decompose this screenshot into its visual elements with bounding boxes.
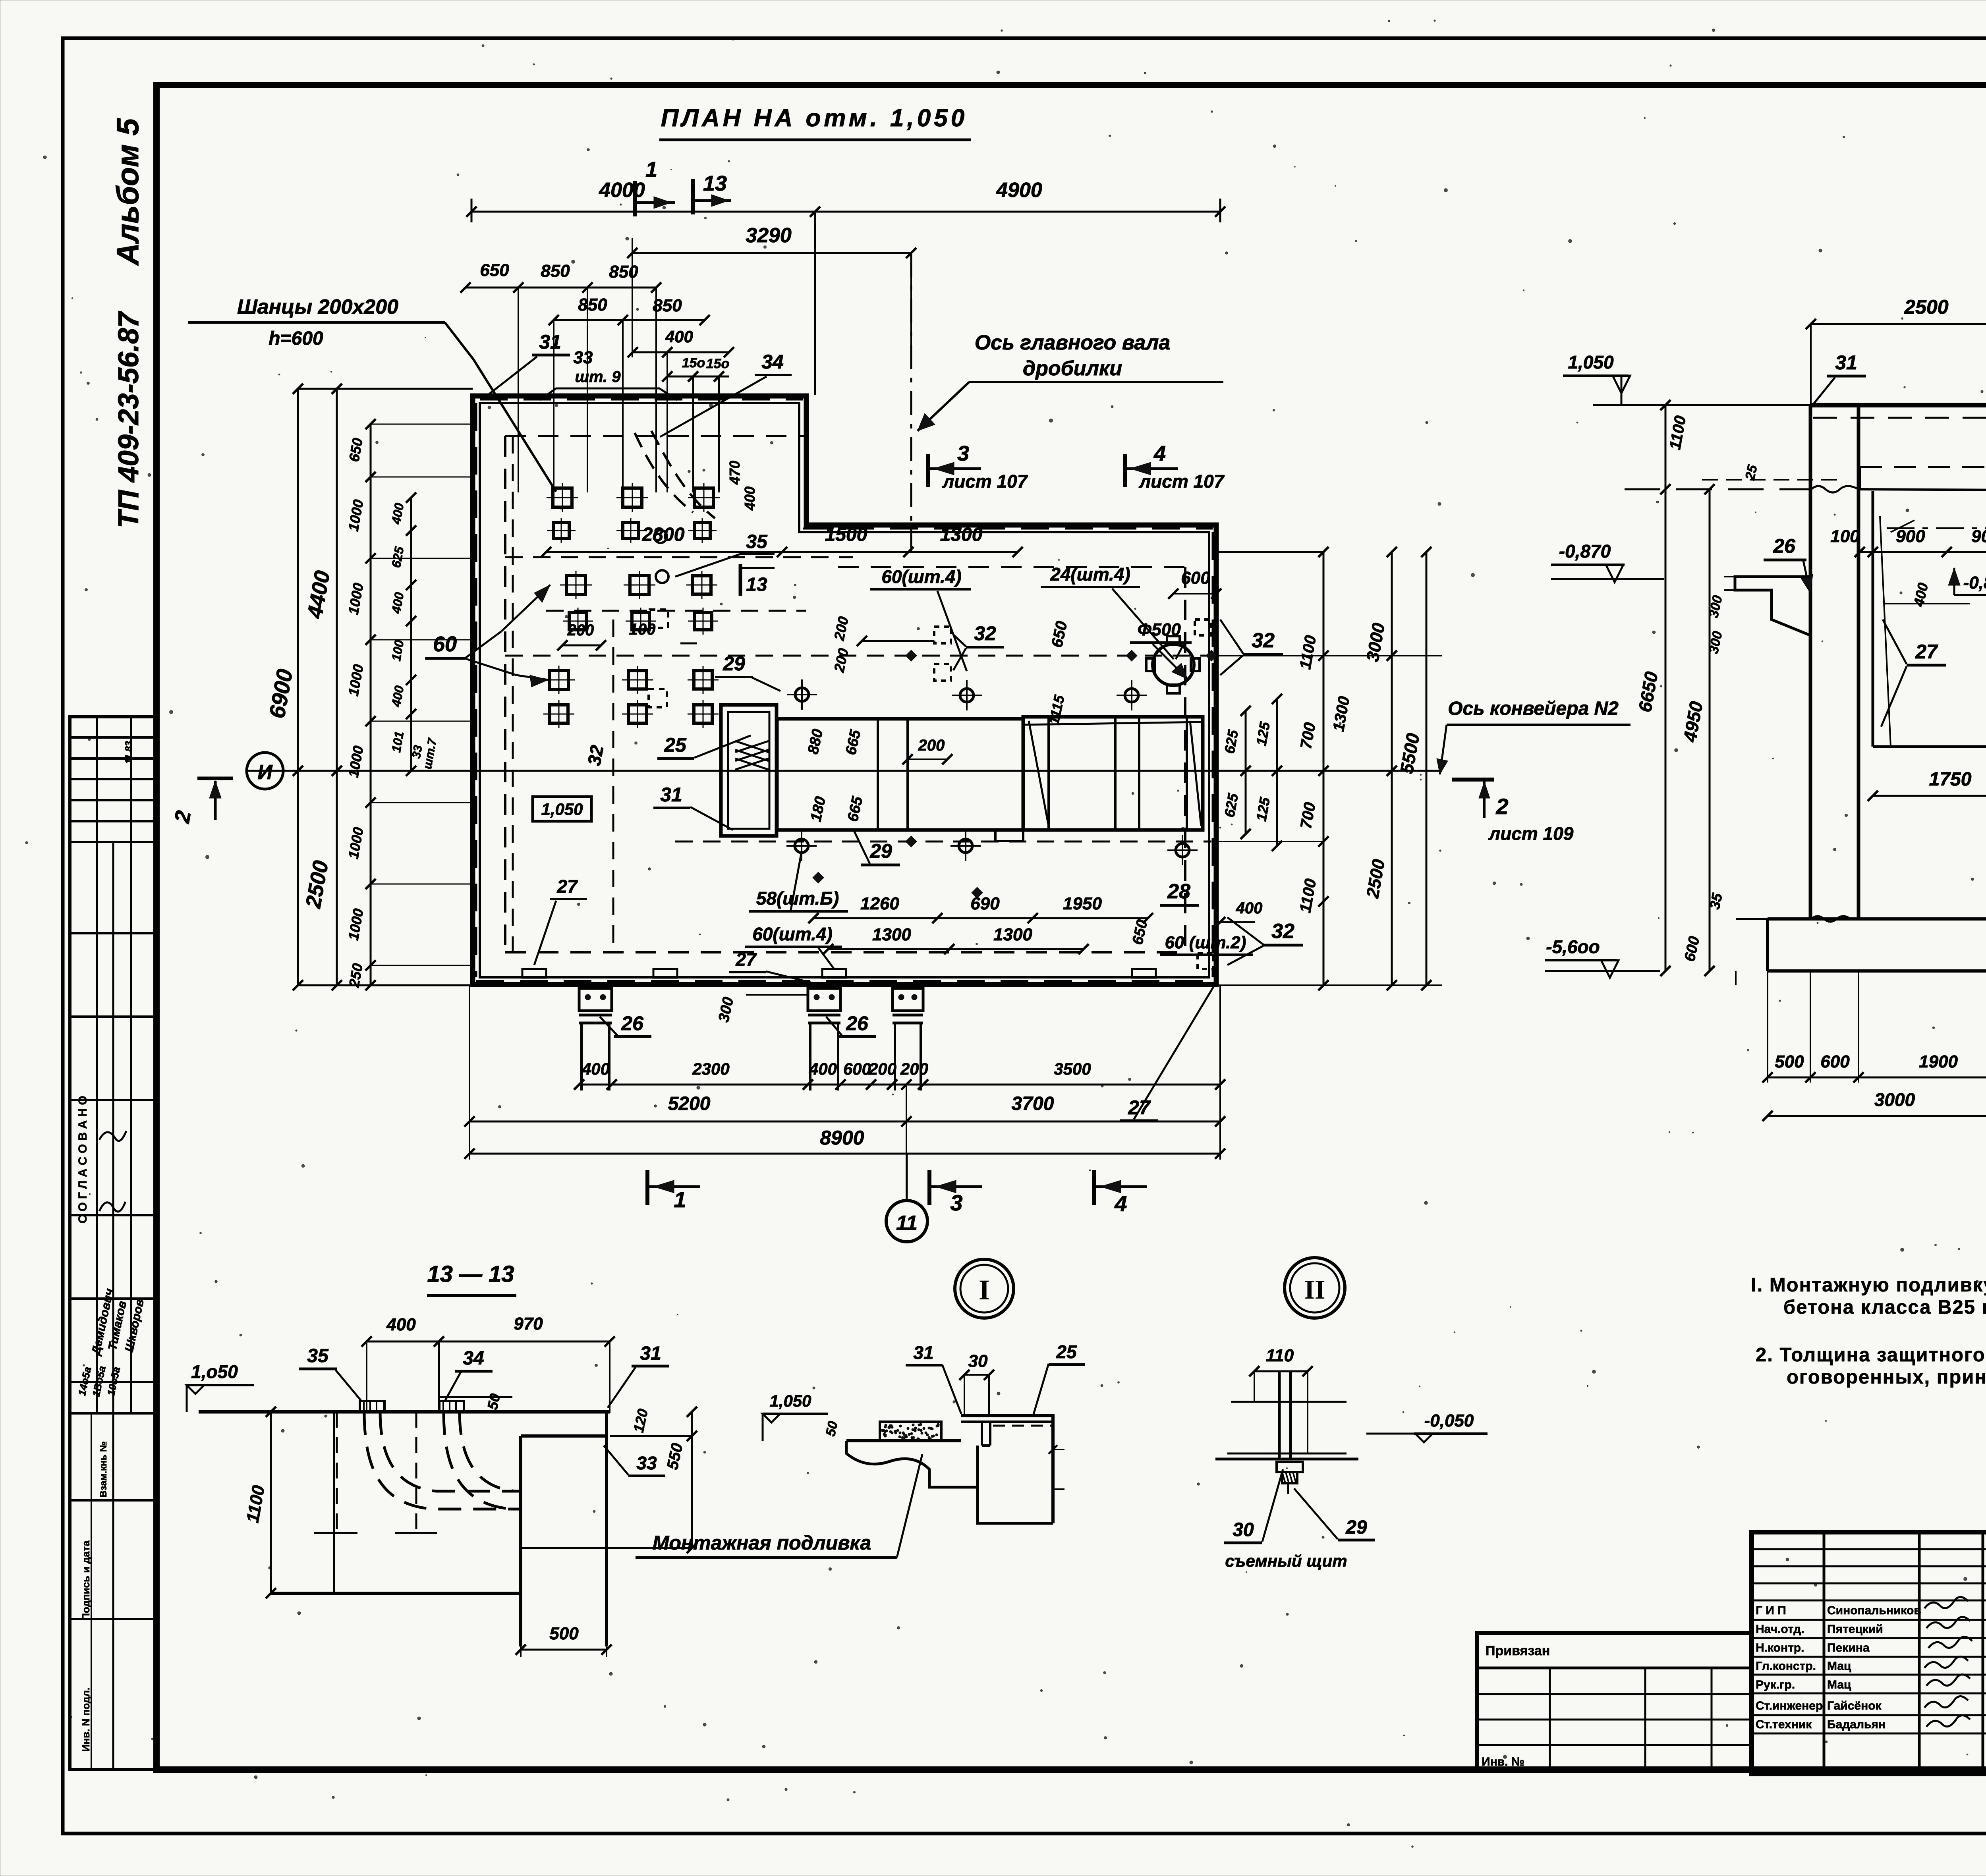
extension verticals top dims [518,288,519,492]
svg-text:-0,800: -0,800 [1963,573,1986,593]
dim 2800/1500/1300 [546,551,1018,553]
svg-text:200: 200 [868,1060,896,1078]
svg-text:оговоренных, принята 35 мм.: оговоренных, принята 35 мм. [1787,1366,1986,1388]
footing [1768,917,1986,921]
svg-text:1300: 1300 [993,925,1032,944]
svg-text:Монтажная подливка: Монтажная подливка [653,1532,871,1554]
svg-text:ТП 409-23-56.87: ТП 409-23-56.87 [113,311,145,528]
svg-text:200: 200 [900,1060,928,1078]
svg-text:съемный щит: съемный щит [1225,1552,1347,1570]
anchor squares grid [553,488,572,507]
svg-text:Пекина: Пекина [1827,1641,1870,1654]
bottom flags 1 3 4 [645,1170,649,1205]
pit inner walls [1872,491,1874,747]
svg-text:500: 500 [549,1624,579,1643]
svg-text:2800: 2800 [642,524,685,545]
svg-text:Пятецкий: Пятецкий [1827,1623,1883,1636]
machine small appendage [995,830,1023,841]
interior dashed horizontals [505,556,853,558]
svg-text:4900: 4900 [996,179,1042,202]
svg-text:1750: 1750 [1929,769,1972,790]
top dim 2500/4400 [1811,323,1986,325]
svg-text:Гайсёнок: Гайсёнок [1827,1699,1882,1712]
svg-text:100: 100 [1830,527,1860,546]
bottom dims 500/600/1900/1900/600/500 [1768,1077,1986,1079]
wall dashes top [480,399,803,401]
svg-text:58(шт.Б): 58(шт.Б) [756,888,839,909]
svg-text:лист 107: лист 107 [1139,471,1225,492]
svg-text:100: 100 [629,621,656,638]
signature table verticals [1823,1532,1826,1774]
svg-text:ПЛАН НА отм. 1,050: ПЛАН НА отм. 1,050 [661,104,968,132]
svg-text:-5,6оо: -5,6оо [1546,936,1600,957]
svg-text:31: 31 [539,331,561,353]
flag 2 list109 right [1452,778,1494,782]
flag 3 list107 [926,454,930,487]
svg-text:33: 33 [636,1453,657,1473]
section flag 13 top [691,179,695,214]
bottom dim row 2 [469,1121,1220,1123]
svg-text:27: 27 [556,876,578,897]
svg-text:35: 35 [746,531,768,552]
svg-text:60 (шт.2): 60 (шт.2) [1165,933,1246,952]
bottom dims 3000/3000 [1768,1115,1986,1117]
svg-text:400: 400 [665,327,693,346]
svg-text:3500: 3500 [1054,1060,1091,1078]
svg-text:50: 50 [823,1420,841,1438]
svg-text:850: 850 [541,261,570,281]
svg-text:1500: 1500 [825,524,867,545]
left dim columns [297,389,299,985]
svg-text:400: 400 [742,486,758,511]
elevation box 1,050 [533,797,591,821]
svg-text:4000: 4000 [599,179,645,202]
title block outer [1752,1532,1986,1774]
dim 850/850 row2 [554,319,705,321]
svg-text:60(шт.4): 60(шт.4) [752,924,832,944]
svg-text:Ось конвейера N2: Ось конвейера N2 [1448,698,1619,719]
dim 650/850/850 [466,287,656,289]
slab under dashed [1813,417,1986,419]
svg-text:1: 1 [645,158,657,181]
svg-text:1,050: 1,050 [1568,352,1614,372]
signature table rows [1752,1548,1986,1550]
svg-text:31: 31 [913,1342,933,1363]
svg-text:1260: 1260 [860,894,899,913]
svg-text:Привязан: Привязан [1486,1643,1550,1658]
detail I drawing [846,1439,961,1442]
svg-text:32: 32 [583,743,607,767]
svg-text:650: 650 [480,261,509,280]
svg-text:II: II [1304,1274,1325,1305]
svg-text:13 — 13: 13 — 13 [427,1261,514,1287]
svg-text:2: 2 [1495,794,1508,819]
plan outline inner [480,403,1209,977]
detail II circle [1285,1258,1345,1318]
section bottom extension lines [1767,971,1768,1083]
svg-text:30: 30 [968,1351,988,1371]
dim 400 row3 [633,351,729,353]
svg-text:50: 50 [484,1392,503,1411]
svg-text:2500: 2500 [1904,296,1948,318]
slab top line [1593,404,1811,406]
svg-text:Инв. №: Инв. № [1482,1755,1524,1768]
detail I base plate [961,1414,1053,1417]
svg-text:4: 4 [1153,442,1166,465]
svg-text:Рук.гр.: Рук.гр. [1756,1678,1795,1691]
svg-text:31: 31 [640,1343,661,1364]
detail I wavy break [846,1441,978,1487]
svg-text:13: 13 [703,172,727,195]
svg-text:1900: 1900 [1919,1052,1958,1071]
svg-text:3290: 3290 [746,224,792,247]
svg-text:400: 400 [1236,899,1263,917]
svg-text:1,050: 1,050 [769,1392,811,1410]
svg-text:Синопальников: Синопальников [1827,1604,1921,1617]
inset dashed rectangle [505,435,806,437]
svg-text:31: 31 [660,784,682,806]
svg-text:34: 34 [463,1348,484,1369]
svg-text:Мац: Мац [1827,1678,1851,1691]
svg-text:850: 850 [578,295,607,315]
svg-text:С О Г Л А С О В А Н О: С О Г Л А С О В А Н О [76,1096,89,1223]
svg-text:3: 3 [957,442,969,465]
svg-text:Мац: Мац [1827,1660,1851,1673]
svg-text:Ст.техник: Ст.техник [1756,1718,1812,1731]
svg-text:1,050: 1,050 [541,800,583,818]
svg-text:200: 200 [918,737,945,754]
svg-text:470: 470 [726,461,743,485]
svg-text:850: 850 [653,296,682,315]
bolt circles [795,688,809,701]
svg-text:Ст.инженер: Ст.инженер [1756,1699,1823,1712]
flag 2 left [197,777,233,780]
crusher circle [1153,644,1194,685]
svg-text:Гл.констр.: Гл.констр. [1756,1660,1816,1673]
pedestal right [521,1434,607,1438]
svg-text:бетона класса В25 на мелком за: бетона класса В25 на мелком заполнителе. [1783,1297,1986,1318]
svg-text:3: 3 [950,1190,962,1215]
plan outline outer [473,396,1216,984]
bottom dim row 3 [469,1153,1220,1155]
section flag 1 top [633,181,637,216]
svg-text:Шанцы 200х200: Шанцы 200х200 [237,295,398,318]
axis circle 11 bottom [886,1200,927,1242]
svg-text:690: 690 [970,894,1000,913]
svg-text:-0,870: -0,870 [1559,541,1611,562]
dim 150 150 [667,376,729,378]
detail II dim 110 [1254,1370,1308,1372]
dim 3290 [632,252,911,254]
svg-text:25: 25 [664,734,687,756]
bolt heads on line [360,1401,384,1412]
vertical dim 1100 [270,1412,272,1593]
svg-text:27: 27 [735,949,757,970]
curved anchor bolts 34/35 [635,433,693,512]
svg-text:850: 850 [609,262,638,282]
detail II drawing [1278,1371,1281,1458]
svg-text:500: 500 [1775,1052,1804,1071]
left vertical dims of section [1665,405,1667,971]
svg-text:11.83: 11.83 [124,741,134,764]
svg-text:h=600: h=600 [269,328,323,349]
svg-text:29: 29 [723,652,745,675]
pit dashed top [1860,466,1986,468]
bottom pads 26 [579,988,612,1011]
svg-text:-0,050: -0,050 [1424,1411,1474,1430]
svg-text:24(шт.4): 24(шт.4) [1050,564,1130,585]
main shaft axis line [910,253,912,556]
svg-text:2300: 2300 [692,1060,729,1078]
bottom dim row 1 [579,1084,1220,1086]
svg-text:Бадальян: Бадальян [1827,1718,1886,1731]
svg-text:дробилки: дробилки [1023,357,1122,380]
svg-text:900: 900 [1971,527,1986,546]
top dim 4000/4900 [471,211,1220,213]
left small col D [410,498,412,771]
svg-text:27: 27 [1915,641,1938,663]
dashed detail squares [650,610,668,628]
svg-text:Г И П: Г И П [1756,1604,1786,1617]
svg-text:шт. 9: шт. 9 [575,368,621,386]
svg-text:400: 400 [386,1315,416,1334]
svg-text:I: I [979,1274,990,1306]
svg-text:200: 200 [567,621,594,639]
svg-text:15о: 15о [682,355,705,371]
axis circle I [247,753,283,789]
svg-text:26: 26 [1773,535,1796,557]
scan speckle noise [1670,65,1671,66]
svg-text:31: 31 [1835,351,1857,374]
svg-text:1300: 1300 [872,925,911,944]
svg-text:26: 26 [621,1012,644,1035]
svg-text:35: 35 [307,1345,329,1366]
svg-text:3000: 3000 [1874,1089,1915,1110]
svg-text:Подпись и дата: Подпись и дата [80,1540,92,1621]
svg-text:600: 600 [1820,1052,1850,1071]
svg-text:13: 13 [746,574,767,595]
svg-text:600: 600 [1181,568,1210,588]
svg-text:1950: 1950 [1063,894,1102,913]
svg-text:32: 32 [974,622,996,645]
svg-text:3700: 3700 [1012,1093,1054,1114]
detail I circle [955,1259,1014,1318]
13-13 top line [199,1410,610,1414]
svg-text:28: 28 [1167,880,1190,903]
svg-text:Ось главного вала: Ось главного вала [975,331,1171,354]
axis I horizontal [247,770,1442,772]
svg-text:1300: 1300 [940,524,983,545]
svg-text:29: 29 [1345,1517,1367,1538]
svg-text:8900: 8900 [820,1127,864,1149]
plus node marks [906,650,917,661]
interior dashed verticals [512,436,514,952]
svg-text:1,о50: 1,о50 [191,1361,238,1382]
anchor bolt curves [364,1412,520,1509]
svg-text:лист 109: лист 109 [1488,823,1574,844]
svg-text:4: 4 [1114,1191,1127,1216]
section dim row 100/900x4/100/1400/500 [1860,551,1986,553]
floor line -0.870 with wavy breaks [1625,488,1811,490]
svg-text:Нач.отд.: Нач.отд. [1756,1623,1804,1636]
svg-text:Н.контр.: Н.контр. [1756,1641,1804,1654]
svg-text:60(шт.4): 60(шт.4) [881,566,961,587]
500 dim [521,1649,607,1651]
svg-text:600: 600 [843,1060,871,1078]
machine body rectangles [777,719,1023,830]
svg-text:34: 34 [761,351,784,373]
svg-text:Взам.кнь №: Взам.кнь № [98,1441,109,1497]
privyazan block [1477,1633,1752,1770]
svg-text:60: 60 [433,632,457,656]
svg-text:I. Монтажную подливку выполнят: I. Монтажную подливку выполнять из [1751,1274,1986,1296]
svg-text:30: 30 [1233,1519,1254,1540]
svg-text:Альбом 5: Альбом 5 [110,118,145,266]
section flag 13 middle [739,564,742,596]
left stamp table [70,717,155,1770]
svg-text:11: 11 [896,1212,918,1235]
svg-text:110: 110 [1266,1346,1294,1365]
svg-text:25: 25 [1056,1341,1077,1362]
svg-text:29: 29 [869,840,892,862]
svg-text:400: 400 [809,1060,837,1078]
pit dims 1750/1800 [1873,795,1986,797]
svg-text:2. Толщина защитного слоя бето: 2. Толщина защитного слоя бетона, кроме [1756,1344,1986,1366]
svg-text:400: 400 [582,1060,610,1078]
left wall [1809,405,1812,919]
machine pit 25 [721,705,777,836]
13-13 top dims 400/970 [367,1341,610,1343]
svg-text:27: 27 [1128,1096,1151,1119]
svg-text:970: 970 [514,1314,543,1334]
svg-text:5200: 5200 [668,1093,711,1114]
svg-text:33: 33 [574,348,593,367]
svg-text:15о: 15о [706,356,730,371]
svg-text:1: 1 [674,1187,686,1212]
flag 4 list107 [1123,454,1127,487]
svg-text:Инв. N подл.: Инв. N подл. [80,1687,92,1752]
svg-text:И: И [257,761,273,784]
svg-text:32: 32 [1252,629,1275,652]
right dim columns [1216,551,1323,553]
svg-text:26: 26 [846,1012,869,1035]
svg-text:лист 107: лист 107 [942,471,1028,492]
small bottom squares on outline [522,969,546,978]
svg-text:32: 32 [1271,920,1294,943]
svg-text:900: 900 [1896,527,1925,546]
